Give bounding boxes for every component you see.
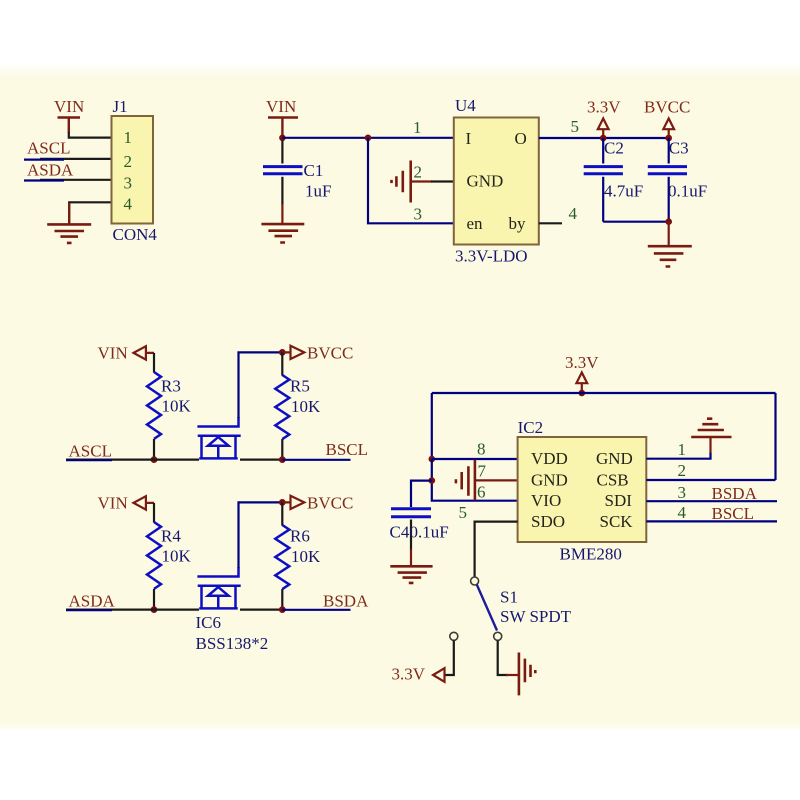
node 3.3V rail junction [579,390,586,397]
resistor R4 [147,522,161,589]
ground (J1) [47,224,91,243]
svg-text:4: 4 [678,503,687,522]
node C4 junction [429,477,436,484]
svg-text:GND: GND [467,172,504,191]
node ASCL junction (R3) [151,456,158,463]
svg-text:BME280: BME280 [560,545,622,564]
wire U4 output to BVCC [539,137,669,139]
wire J1 pin4 to ground [69,202,111,224]
wire to ground (C2/C3) [668,222,670,246]
power symbol VIN (at C1) [266,97,298,135]
switch blade [477,585,497,631]
svg-text:VIN: VIN [266,97,296,116]
transistor IC6 (BSS138 #2) [197,567,240,608]
svg-text:BSDA: BSDA [323,592,369,611]
node BVCC junction [665,135,672,142]
svg-text:8: 8 [477,440,486,459]
ground (C4) [390,566,432,583]
capacitor C1 [281,140,283,164]
capacitor C3 [668,138,670,164]
svg-text:0.1uF: 0.1uF [668,182,707,201]
svg-text:BSS138*2: BSS138*2 [196,634,269,653]
wire ASCL to J1 pin2 [40,158,112,160]
svg-text:0.1uF: 0.1uF [410,523,449,542]
svg-text:10K: 10K [291,397,321,416]
svg-text:SW SPDT: SW SPDT [500,607,572,626]
node VIN junction [279,135,286,142]
svg-text:VIN: VIN [98,344,128,363]
svg-text:S1: S1 [500,588,518,607]
switch S1 common terminal [471,577,479,585]
wire R5 to BSCL [281,439,283,460]
svg-text:3: 3 [124,174,133,193]
power symbol 3.3V (at S1) [433,668,444,682]
svg-text:BVCC: BVCC [307,494,353,513]
wire rail down to CSB [774,393,776,480]
svg-text:VDD: VDD [531,449,568,468]
svg-text:3.3V: 3.3V [587,98,621,117]
svg-text:3.3V: 3.3V [392,665,426,684]
wire pin4 SCK (BSCL) [646,520,777,522]
wire drain link to BVCC (shifter1) [239,352,283,418]
svg-text:4: 4 [124,195,133,214]
wire VIN to U4 pin1 [282,137,453,139]
svg-text:SCK: SCK [600,512,634,531]
svg-text:R3: R3 [161,377,181,396]
svg-text:ASCL: ASCL [27,139,70,158]
svg-text:VIN: VIN [54,97,84,116]
wire 3.3V rail [432,392,776,394]
resistor R3 [147,372,161,439]
wire rail down to VDD [431,393,433,459]
switch S1 throw A terminal [450,632,458,640]
svg-text:IC6: IC6 [196,613,222,632]
wire ASDA to J1 pin3 [40,179,112,181]
wire drain link to BVCC (shifter2) [239,502,283,568]
svg-text:ASDA: ASDA [27,160,74,179]
wire C1 to ground [281,204,283,224]
svg-text:IC2: IC2 [518,418,544,437]
svg-text:BVCC: BVCC [307,344,353,363]
wire ground to GND pin [411,180,432,182]
node VDD junction [429,456,436,463]
ground (U4 pin2, sideways) [392,161,411,203]
wire by stub [539,222,562,224]
svg-text:J1: J1 [113,97,128,116]
wire mosfet to R6 segment [240,608,282,610]
ground (C2/C3) [648,246,692,266]
svg-text:GND: GND [596,449,633,468]
regulator U4 [454,118,539,245]
node ASDA junction (R4) [151,606,158,613]
svg-text:VIO: VIO [531,491,561,510]
svg-text:en: en [467,214,484,233]
wire pin7 GND [475,479,518,481]
node C3 bottom junction [665,218,672,225]
power symbol BVCC (shifter1) [282,346,304,359]
svg-text:O: O [515,129,527,148]
svg-text:1: 1 [124,128,133,147]
svg-text:CON4: CON4 [113,225,158,244]
wire throw B to ground [498,641,508,676]
wire pin1 GND to ground [646,452,710,459]
svg-text:3.3V: 3.3V [565,353,599,372]
svg-text:10K: 10K [162,397,192,416]
wire R3 to ASCL [153,439,155,460]
svg-text:2: 2 [124,152,133,171]
svg-text:5: 5 [571,117,580,136]
wire junction to C4 [411,481,432,507]
wire VDD pin8 [432,458,518,460]
svg-text:SDO: SDO [531,512,565,531]
wire SDO to switch [475,522,518,577]
node junction at en branch [365,135,372,142]
svg-text:4: 4 [569,204,578,223]
node BVCC junction (R5) [279,349,286,356]
svg-text:2: 2 [678,461,687,480]
svg-text:R6: R6 [290,527,310,546]
IC2 BME280 [518,437,647,542]
ground (C1) [261,224,304,242]
wire VIN to R3 [153,353,155,373]
capacitor C2 [602,138,604,164]
svg-text:3.3V-LDO: 3.3V-LDO [455,247,528,266]
svg-text:7: 7 [478,462,487,481]
svg-text:3: 3 [414,205,423,224]
svg-text:BVCC: BVCC [644,98,690,117]
wire BSDA line [282,609,350,611]
wire mosfet to R5 segment [240,459,282,461]
svg-text:CSB: CSB [597,470,629,489]
ground (IC2 pin7, sideways) [456,460,475,501]
capacitor C4 [391,509,431,517]
svg-text:4.7uF: 4.7uF [604,182,643,201]
wire throw A to 3.3V [445,641,454,676]
svg-text:GND: GND [531,470,568,489]
wire junction down to en pin [368,138,454,224]
power symbol BVCC (shifter2) [282,496,304,509]
svg-text:2: 2 [414,163,423,182]
wire VIN to R4 [153,503,155,523]
svg-text:5: 5 [459,503,468,522]
resistor R6 [281,502,283,525]
power symbol VIN (at J1) [54,97,84,133]
svg-text:SDI: SDI [605,491,633,510]
wire ASCL line [66,459,199,461]
svg-text:VIN: VIN [98,494,128,513]
wire C2 to C3 bottom [603,221,669,223]
switch S1 throw B terminal [494,632,502,640]
wire BSCL line [282,459,350,461]
wire ASDA line [66,608,199,610]
svg-text:U4: U4 [455,96,476,115]
svg-text:I: I [466,129,472,148]
wire down to VIO [432,459,518,501]
svg-text:C2: C2 [604,139,624,158]
wire R4 to ASDA [153,589,155,610]
resistor R5 [281,352,283,375]
node BSDA junction [279,606,286,613]
wire R6 to BSDA [281,589,283,610]
svg-text:3: 3 [678,483,687,502]
svg-text:1: 1 [413,118,422,137]
svg-text:BSCL: BSCL [712,504,755,523]
wire pin2 CSB to 3.3V [646,479,775,481]
svg-text:10K: 10K [291,547,321,566]
svg-text:1: 1 [678,440,687,459]
svg-text:10K: 10K [162,547,192,566]
svg-text:BSDA: BSDA [712,484,758,503]
svg-text:C3: C3 [669,139,689,158]
svg-text:R5: R5 [290,377,310,396]
svg-text:ASDA: ASDA [69,592,116,611]
svg-text:ASCL: ASCL [69,442,112,461]
transistor Q (BSS138 #1) [197,417,240,458]
svg-text:R4: R4 [161,527,181,546]
svg-text:6: 6 [477,483,486,502]
connector J1 [112,116,154,224]
svg-text:BSCL: BSCL [326,440,369,459]
wire pin3 SDI (BSDA) [646,500,777,502]
svg-text:C1: C1 [304,161,324,180]
node 3.3V junction [600,135,607,142]
svg-text:1uF: 1uF [305,182,331,201]
svg-text:by: by [509,214,527,233]
svg-text:C4: C4 [390,523,410,542]
ground (S1, sideways) [519,653,535,696]
node BVCC junction (R6) [279,499,286,506]
wire J1 pin1 [69,132,112,138]
node BSCL junction [279,456,286,463]
ground (IC2 pin1, inverted) [691,419,731,437]
